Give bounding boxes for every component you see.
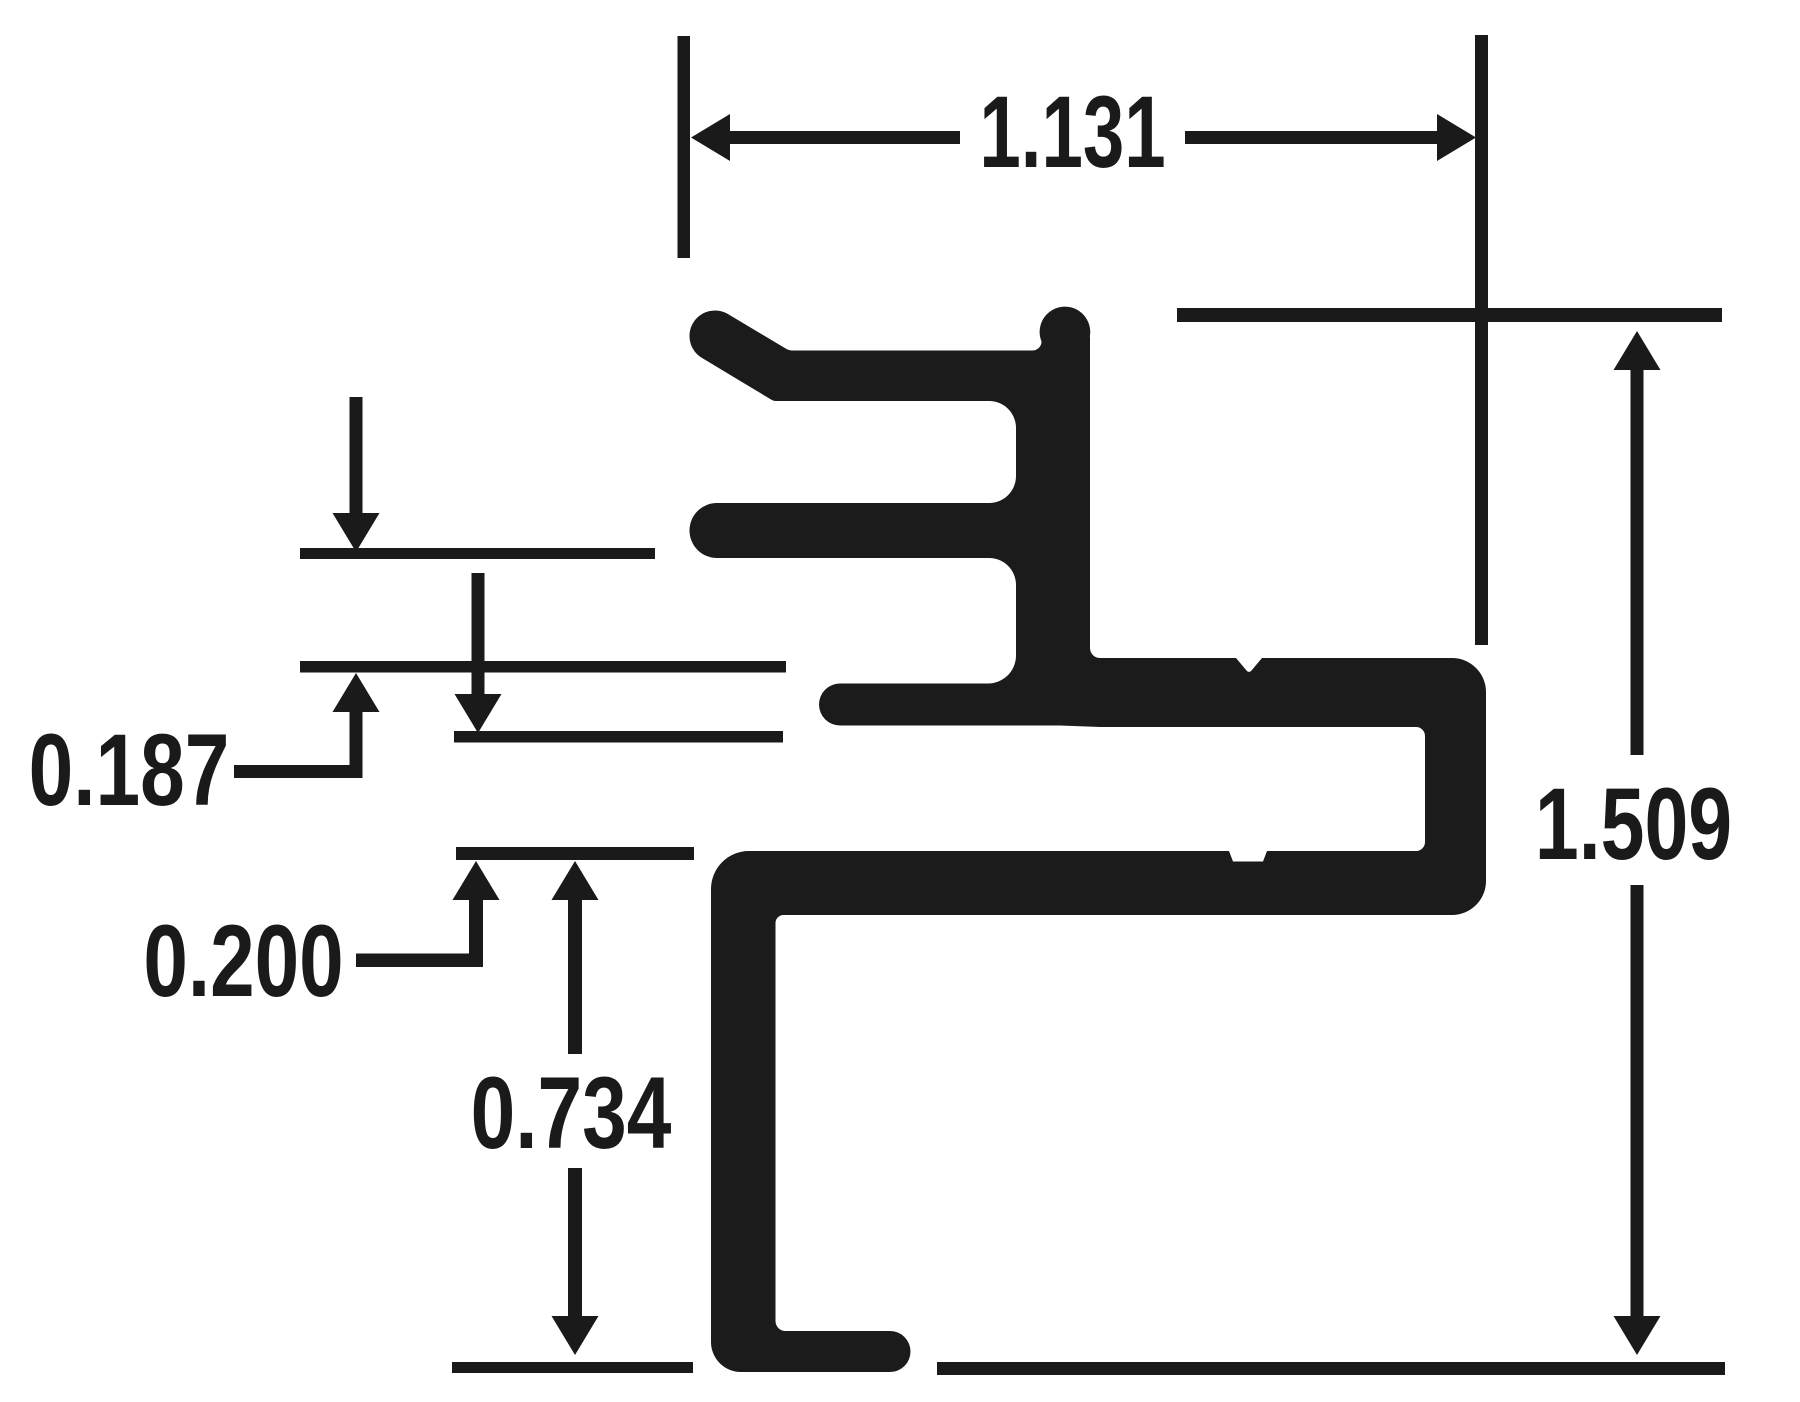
svg-text:1.509: 1.509 (1535, 767, 1732, 881)
0.734 up arrow (552, 861, 599, 900)
svg-text:0.187: 0.187 (29, 714, 230, 827)
1.509 up arrow (1614, 331, 1661, 370)
top extension line (1.509) (1177, 308, 1722, 322)
extension line L2 (wall top) (300, 661, 786, 673)
dimension text 0.200 (143, 905, 343, 1018)
extension line right (1.131) (1475, 35, 1488, 645)
extension line L1 (prong bottom) (300, 548, 655, 559)
extension line L3 (454, 731, 783, 743)
0.187 up arrow + leader (333, 673, 380, 712)
dimension text 0.734 (471, 1057, 672, 1170)
bottom extension line left (452, 1362, 693, 1373)
svg-text:0.200: 0.200 (143, 905, 343, 1018)
bottom extension line right (937, 1362, 1725, 1375)
dim line 1.131 left arrow (691, 114, 730, 161)
svg-text:1.131: 1.131 (979, 74, 1165, 188)
dimension text 1.509 (1535, 767, 1732, 881)
extrusion profile cross-section (689, 307, 1486, 1372)
dimension text 1.131 (979, 74, 1165, 188)
0.734 down arrow (568, 1168, 582, 1316)
0.200 down arrow (472, 573, 485, 694)
extension line left (1.131) (678, 36, 691, 258)
0.200 up arrow + leader (453, 861, 500, 900)
dim line 1.131 right arrow (1437, 114, 1476, 161)
0.187 down arrow (350, 397, 363, 513)
dimension text 0.187 (29, 714, 230, 827)
svg-text:0.734: 0.734 (471, 1057, 672, 1170)
extension line L4 (456, 847, 694, 860)
1.509 down arrow (1631, 885, 1644, 1316)
